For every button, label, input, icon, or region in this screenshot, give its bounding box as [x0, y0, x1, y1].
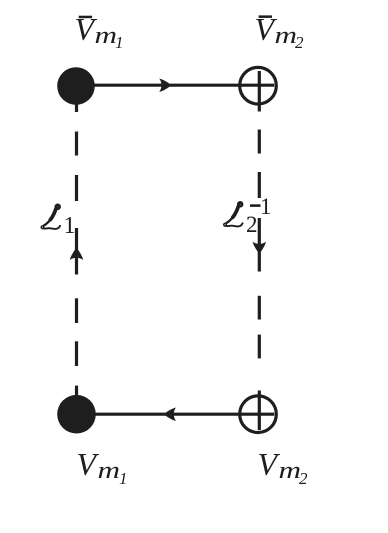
svg-text:1: 1	[119, 469, 128, 488]
label Vbar_m1 (top-left)	[75, 11, 124, 52]
svg-text:1: 1	[64, 213, 76, 239]
svg-text:V: V	[258, 446, 281, 482]
svg-text:1: 1	[115, 33, 124, 52]
svg-text:m: m	[98, 457, 121, 484]
label V_m2 (bottom-right)	[258, 446, 309, 488]
arrow left line (upwards)	[70, 248, 83, 261]
label L1 (script L with subscript 1, left middle)	[41, 205, 75, 239]
wire top horizontal	[76, 84, 274, 87]
svg-text:1: 1	[260, 194, 272, 219]
node Vbar_m1 (filled circle, top-left)	[57, 67, 95, 105]
wire bottom horizontal	[77, 413, 274, 416]
node V_m1 (filled circle, bottom-left)	[57, 395, 96, 434]
arrow top (rightwards)	[159, 79, 172, 92]
node V_m2 (oplus, bottom-right)	[240, 391, 277, 433]
node Vbar_m2 (oplus, top-right)	[240, 67, 277, 111]
svg-text:m: m	[275, 22, 298, 49]
svg-text:V: V	[77, 446, 100, 482]
svg-text:m: m	[95, 22, 118, 49]
label L2^-1 (script L with subscript 2 and superscript -1, right middle)	[224, 194, 272, 237]
arrow bottom (leftwards)	[164, 408, 177, 421]
svg-text:2: 2	[299, 469, 308, 488]
wire left vertical dashed	[75, 100, 78, 415]
svg-text:2: 2	[295, 33, 304, 52]
wire right vertical dashed	[258, 130, 261, 359]
svg-text:2: 2	[246, 212, 258, 237]
label Vbar_m2 (top-right)	[255, 11, 305, 52]
svg-text:m: m	[279, 457, 302, 484]
label V_m1 (bottom-left)	[77, 446, 128, 488]
arrow right line (downwards)	[253, 242, 266, 255]
